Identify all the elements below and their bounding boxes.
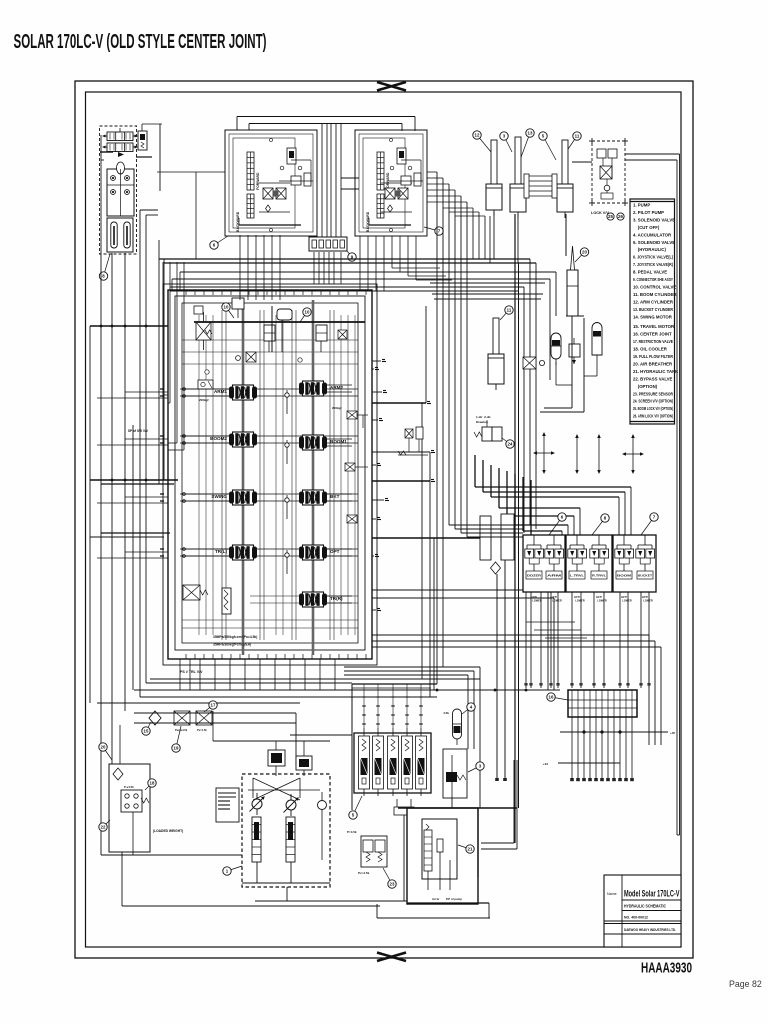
outer border frame bbox=[75, 81, 693, 958]
svg-text:Model Solar 170LC-V: Model Solar 170LC-V bbox=[624, 889, 680, 899]
balloon 15 bbox=[142, 722, 151, 735]
remote manifold box A bbox=[523, 535, 565, 592]
pilot unit R.TRVL bbox=[590, 535, 609, 579]
pilot unit BOOM bbox=[615, 535, 634, 579]
svg-text:16: 16 bbox=[549, 695, 554, 700]
svg-text:13. BUCKET CYLINDER: 13. BUCKET CYLINDER bbox=[633, 307, 674, 312]
bucket cylinder 13 bbox=[510, 137, 526, 218]
svg-text:22. BYPASS VALVE: 22. BYPASS VALVE bbox=[633, 376, 673, 381]
svg-text:P=4.5k: P=4.5k bbox=[347, 830, 357, 834]
svg-text:LOWER: LOWER bbox=[575, 600, 584, 603]
MCV load check valves bbox=[285, 390, 289, 574]
svg-text:12: 12 bbox=[475, 133, 480, 138]
svg-text:10: 10 bbox=[224, 305, 229, 310]
main pump 1b bbox=[284, 794, 299, 816]
spool BOOM1 bbox=[299, 435, 352, 450]
svg-text:15. TRAVEL MOTOR: 15. TRAVEL MOTOR bbox=[633, 324, 675, 329]
wire solenoid bottom bbox=[394, 799, 414, 901]
wire MCV row feeds bbox=[97, 392, 168, 558]
balloon 16 bbox=[547, 693, 568, 701]
lock valve box 25/26 bbox=[589, 138, 628, 215]
wire left heavy horizontals bbox=[90, 259, 178, 537]
joystick valve 6 (left) bbox=[225, 130, 317, 236]
svg-text:4. ACCUMULATOR: 4. ACCUMULATOR bbox=[633, 232, 672, 237]
svg-text:+42: +42 bbox=[543, 762, 548, 766]
air breather 20 bbox=[567, 246, 578, 316]
pump internals bbox=[252, 817, 295, 862]
balloon 26 bbox=[617, 213, 624, 220]
spool BOOM2 bbox=[180, 432, 257, 447]
pilot pump 2 bbox=[318, 792, 327, 860]
wire manifold drops bbox=[526, 592, 649, 688]
wire MCV bottom drops bbox=[180, 659, 335, 690]
pump cross linkage bbox=[248, 766, 320, 800]
svg-text:15: 15 bbox=[144, 729, 149, 734]
svg-text:DAEWOO HEAVY INDUSTRIES LTD.: DAEWOO HEAVY INDUSTRIES LTD. bbox=[624, 927, 676, 932]
svg-text:11: 11 bbox=[507, 308, 512, 313]
svg-text:FORWARD: FORWARD bbox=[256, 172, 260, 190]
svg-text:(HYDRAULIC): (HYDRAULIC) bbox=[633, 247, 667, 252]
page title bbox=[14, 31, 267, 53]
svg-text:BOOM2: BOOM2 bbox=[210, 436, 227, 441]
svg-text:SWING: SWING bbox=[211, 494, 227, 499]
svg-text:25. BOOM LOCK V/V (OPTION): 25. BOOM LOCK V/V (OPTION) bbox=[633, 406, 673, 411]
pedal valve body bbox=[107, 162, 134, 216]
svg-text:35MPa/360kgf=cm²(2EA): 35MPa/360kgf=cm²(2EA) bbox=[213, 643, 251, 647]
solenoid bank box bbox=[352, 684, 437, 810]
flow marker v2 bbox=[575, 434, 579, 474]
svg-text:LOWER: LOWER bbox=[552, 600, 561, 603]
wire right vertical bundle bbox=[427, 172, 467, 684]
boom cylinder 11 bbox=[557, 140, 573, 218]
svg-text:ARM1: ARM1 bbox=[214, 389, 227, 394]
wire bottom bus bbox=[97, 667, 560, 808]
pedal valve 8 dashed box bbox=[100, 126, 137, 254]
balloon 11 bbox=[500, 306, 513, 320]
solenoid valve 5-2 bbox=[373, 728, 384, 796]
wire MCV right exits bbox=[372, 306, 661, 745]
wire top bus bbox=[237, 117, 415, 132]
full flow filter 19 bbox=[196, 711, 212, 732]
accumulator a bbox=[551, 333, 561, 365]
svg-text:BOOM1: BOOM1 bbox=[330, 439, 347, 444]
balloon 18 bbox=[145, 779, 156, 790]
balloon 17 bbox=[204, 701, 217, 712]
wire accum down bbox=[540, 316, 584, 412]
svg-text:9. CONNECTOR SHE ASSY: 9. CONNECTOR SHE ASSY bbox=[633, 277, 673, 282]
control valve 10 outline bbox=[163, 284, 377, 665]
svg-text:OPT: OPT bbox=[330, 549, 340, 554]
svg-text:ARM2: ARM2 bbox=[330, 385, 343, 390]
pilot unit DOZER bbox=[525, 535, 544, 579]
svg-text:20. AIR BREATHER: 20. AIR BREATHER bbox=[633, 361, 673, 366]
svg-text:11: 11 bbox=[575, 134, 580, 139]
balloon 6m bbox=[549, 513, 566, 535]
MCV bottom text bbox=[180, 635, 257, 674]
svg-text:LOWER: LOWER bbox=[532, 600, 541, 603]
screen valve 24 bbox=[474, 415, 502, 441]
svg-text:LOWER: LOWER bbox=[622, 600, 631, 603]
wire left verticals bbox=[90, 135, 158, 855]
pilot unit ARM bbox=[545, 535, 564, 579]
oil cooler 18 bbox=[174, 711, 190, 732]
svg-text:6. JOYSTICK VALVE(L): 6. JOYSTICK VALVE(L) bbox=[633, 255, 673, 260]
balloon 6 bbox=[210, 236, 228, 249]
svg-text:24: 24 bbox=[508, 442, 513, 447]
balloon 3 bbox=[500, 132, 512, 152]
wire manifold feeders bbox=[449, 525, 523, 537]
wire cooler bar bbox=[134, 713, 296, 766]
pedal valve lower section bbox=[107, 218, 133, 252]
pilot unit L.TRVL bbox=[568, 535, 587, 579]
wire manifold drop labels bbox=[524, 683, 650, 686]
solenoid valve 5-4 bbox=[402, 728, 413, 796]
svg-text:10. CONTROL VALVE: 10. CONTROL VALVE bbox=[633, 284, 676, 289]
svg-text:LOWER: LOWER bbox=[597, 600, 606, 603]
balloon 12 bbox=[473, 131, 491, 152]
svg-text:20: 20 bbox=[582, 250, 587, 255]
svg-text:BUCKET: BUCKET bbox=[638, 574, 652, 578]
svg-text:+45: +45 bbox=[670, 731, 675, 735]
solenoid valve 5-5 bbox=[416, 728, 427, 796]
balloon 8m bbox=[592, 514, 609, 535]
svg-text:SOLAR 170LC-V (OLD STYLE CENTE: SOLAR 170LC-V (OLD STYLE CENTER JOINT) bbox=[14, 31, 267, 53]
pump name plate bbox=[216, 788, 239, 822]
svg-text:BKT: BKT bbox=[330, 494, 340, 499]
svg-text:P.P of pump: P.P of pump bbox=[446, 897, 462, 901]
MCV solenoid a bbox=[264, 325, 275, 352]
svg-text:18. OIL COOLER: 18. OIL COOLER bbox=[633, 347, 668, 352]
control valve row wires bbox=[160, 340, 358, 628]
svg-text:Name: Name bbox=[607, 892, 617, 896]
MCV inner manifold line bbox=[194, 306, 365, 352]
svg-text:23: 23 bbox=[390, 882, 395, 887]
page number bbox=[729, 979, 762, 989]
fold mark bottom bbox=[377, 953, 406, 962]
solenoid valve 5-1 bbox=[359, 728, 370, 796]
flow marker cross 1 bbox=[533, 432, 555, 474]
svg-text:26. ARM LOCK V/V (OPTION): 26. ARM LOCK V/V (OPTION) bbox=[633, 414, 673, 419]
wire relief to tank bbox=[436, 689, 528, 808]
accumulator b (bullet) bbox=[584, 323, 602, 377]
spool TR(R) bbox=[299, 592, 352, 607]
svg-text:21: 21 bbox=[468, 847, 473, 852]
wire left jogs to MCV bbox=[157, 172, 359, 450]
svg-text:23. PRESSURE SENSOR: 23. PRESSURE SENSOR bbox=[633, 391, 674, 396]
remote manifold sublabels bbox=[531, 596, 653, 603]
svg-text:P-v4.5k: P-v4.5k bbox=[124, 785, 134, 789]
pedal valve 8 spools bbox=[102, 128, 138, 152]
relief block 3 bbox=[443, 749, 467, 798]
svg-text:DOZER: DOZER bbox=[527, 574, 542, 578]
balloon 1 bbox=[223, 866, 242, 875]
balloon 9 bbox=[347, 251, 356, 261]
balloon 7 bbox=[424, 227, 443, 235]
flow marker v3 bbox=[597, 434, 601, 474]
wire bus second pair bbox=[170, 287, 524, 533]
wire cylinders down bbox=[494, 154, 680, 835]
balloon 10b bbox=[300, 308, 311, 322]
svg-text:24. SCREEN V/V (OPTION): 24. SCREEN V/V (OPTION) bbox=[633, 399, 673, 404]
svg-text:19. FULL FLOW FILTER: 19. FULL FLOW FILTER bbox=[633, 354, 674, 359]
svg-text:Air br: Air br bbox=[432, 897, 440, 901]
svg-text:7. JOYSTICK VALVE(R): 7. JOYSTICK VALVE(R) bbox=[633, 262, 673, 267]
svg-text:17: 17 bbox=[211, 703, 216, 708]
svg-text:ARM: ARM bbox=[547, 574, 562, 578]
svg-text:Pv=4.5k: Pv=4.5k bbox=[358, 871, 370, 875]
svg-text:16. CENTER JOINT: 16. CENTER JOINT bbox=[633, 332, 672, 337]
spool SWING bbox=[180, 490, 257, 505]
inner border frame bbox=[86, 92, 682, 947]
balloon 4 bbox=[462, 703, 475, 714]
svg-text:LOCK V/V: LOCK V/V bbox=[591, 211, 609, 215]
svg-text:LOWER: LOWER bbox=[643, 600, 652, 603]
balloon 5b bbox=[539, 132, 556, 160]
wire dotted junction line bbox=[543, 731, 676, 767]
MCV right component cluster bbox=[398, 427, 428, 455]
svg-text:Pump4.5k: Pump4.5k bbox=[175, 728, 188, 732]
wire center joint drops bbox=[570, 717, 634, 781]
svg-text:35MPa/350kgf=cm²(Po=4.5k): 35MPa/350kgf=cm²(Po=4.5k) bbox=[213, 635, 257, 639]
svg-text:HYDRAULIC SCHEMATIC: HYDRAULIC SCHEMATIC bbox=[624, 904, 667, 909]
check valve bypass bbox=[149, 711, 161, 725]
svg-text:11. BOOM CYLINDER: 11. BOOM CYLINDER bbox=[633, 292, 677, 297]
svg-text:200kgf: 200kgf bbox=[199, 398, 209, 402]
boom cylinder mid (11) bbox=[488, 318, 504, 390]
spool OPT bbox=[299, 545, 352, 560]
wire right stair bbox=[481, 760, 680, 849]
connector 9 bbox=[309, 237, 347, 251]
svg-text:Page 82: Page 82 bbox=[729, 979, 762, 989]
relief pair block bbox=[347, 830, 387, 875]
spool ARM1 bbox=[180, 385, 257, 400]
svg-text:Drawing: Drawing bbox=[476, 420, 488, 424]
svg-text:2. PILOT PUMP: 2. PILOT PUMP bbox=[633, 210, 664, 215]
svg-text:TR(L): TR(L) bbox=[215, 549, 227, 554]
svg-text:25: 25 bbox=[608, 214, 613, 219]
document number HAAA3930 bbox=[641, 960, 692, 977]
balloon 7m bbox=[641, 513, 658, 535]
cylinder link lines bbox=[524, 174, 557, 198]
svg-text:17. RESTRICTION VALVE: 17. RESTRICTION VALVE bbox=[633, 339, 673, 344]
svg-text:Pv=4.5k: Pv=4.5k bbox=[197, 728, 207, 732]
svg-text:(CUT OFF): (CUT OFF) bbox=[633, 225, 660, 230]
svg-text:14. SWING MOTOR: 14. SWING MOTOR bbox=[633, 314, 673, 319]
balloon 3b bbox=[468, 762, 484, 772]
wire cylinder extra bundle bbox=[443, 208, 490, 263]
wire upper right bundle bbox=[172, 272, 556, 380]
remote manifold box B bbox=[566, 535, 612, 592]
pump regulator a bbox=[268, 741, 285, 766]
wire joystick drop bundle bbox=[240, 235, 452, 300]
restriction valve 17 mid bbox=[523, 357, 545, 369]
control valve port ticks bbox=[186, 290, 366, 659]
pedal valve right branch bbox=[100, 124, 162, 191]
svg-text:22: 22 bbox=[101, 825, 106, 830]
svg-text:L.TRVL: L.TRVL bbox=[570, 574, 584, 578]
svg-text:3. SOLENOID VALVE: 3. SOLENOID VALVE bbox=[633, 217, 675, 222]
MCV ARM2 aux valves bbox=[332, 406, 368, 523]
svg-text:200kgf: 200kgf bbox=[332, 406, 342, 410]
parts list box bbox=[630, 199, 679, 424]
svg-text:R.TRVL: R.TRVL bbox=[592, 574, 606, 578]
svg-text:21. HYDRAULIC TANK: 21. HYDRAULIC TANK bbox=[633, 369, 679, 374]
wire center bundle between joysticks bbox=[322, 124, 341, 239]
svg-text:26: 26 bbox=[618, 214, 623, 219]
MCV top small box bbox=[232, 298, 244, 318]
pump regulator b bbox=[296, 741, 312, 770]
tank block 21 bbox=[407, 808, 478, 904]
balloon 13 bbox=[520, 129, 534, 160]
balloon 23 bbox=[383, 868, 396, 888]
title block bbox=[604, 875, 681, 947]
wire pump bottom bbox=[213, 711, 460, 901]
fold mark top bbox=[377, 82, 406, 91]
svg-text:BOOM: BOOM bbox=[617, 574, 632, 578]
svg-text:TR(R): TR(R) bbox=[330, 596, 343, 601]
MCV top extra components bbox=[194, 306, 347, 374]
control valve inner rails bbox=[199, 310, 355, 640]
pilot unit BUCKET bbox=[636, 535, 655, 579]
wire bus upper pair bbox=[159, 240, 536, 529]
svg-text:NO. 400-00012: NO. 400-00012 bbox=[624, 915, 649, 920]
MCV ARM1 aux valve bbox=[198, 380, 213, 402]
spool BKT bbox=[299, 490, 352, 505]
solenoid pilot ticks bbox=[352, 684, 431, 728]
MCV bottom relief bbox=[183, 585, 208, 600]
arm cylinder 12 bbox=[486, 140, 502, 216]
svg-text:20: 20 bbox=[101, 745, 106, 750]
svg-text:18: 18 bbox=[150, 781, 155, 786]
svg-text:8. PEDAL VALVE: 8. PEDAL VALVE bbox=[633, 270, 667, 275]
svg-text:12. ARM CYLINDER: 12. ARM CYLINDER bbox=[633, 299, 674, 304]
balloon 11b bbox=[566, 132, 581, 152]
accumulator 4 bbox=[443, 709, 461, 745]
balloon 22 bbox=[99, 820, 110, 831]
svg-text:(OPTION): (OPTION) bbox=[633, 384, 658, 389]
wire bottom left bbox=[101, 725, 380, 906]
svg-text:13: 13 bbox=[528, 131, 533, 136]
svg-text:5. SOLENOID VALVE: 5. SOLENOID VALVE bbox=[633, 240, 675, 245]
balloon 20b bbox=[575, 248, 589, 262]
balloon 21 bbox=[458, 845, 474, 853]
balloon 10a bbox=[222, 303, 234, 318]
spool ARM2 bbox=[299, 381, 352, 396]
balloon 19 bbox=[172, 726, 181, 752]
spool TR(L) bbox=[180, 545, 257, 560]
svg-text:(LOADED WEIGHT): (LOADED WEIGHT) bbox=[153, 829, 183, 833]
valve between accumulators bbox=[569, 338, 580, 364]
balloon 25 bbox=[607, 213, 614, 220]
balloon 5 bbox=[349, 796, 362, 819]
wire right staircase bbox=[475, 455, 631, 537]
svg-text:HAAA3930: HAAA3930 bbox=[641, 960, 692, 977]
remote manifold left parts bbox=[480, 514, 514, 781]
balloon 24 bbox=[502, 438, 514, 448]
main pump 1a bbox=[250, 793, 265, 815]
center joint 16 bbox=[568, 690, 637, 717]
control valve gray spool buses bbox=[243, 300, 313, 655]
svg-text:1. PUMP: 1. PUMP bbox=[633, 203, 650, 208]
flow marker cross 4 bbox=[622, 434, 644, 474]
MCV solenoid b bbox=[316, 325, 327, 352]
svg-text:1-dir 2-dir: 1-dir 2-dir bbox=[476, 415, 492, 419]
swivel block label bbox=[153, 829, 183, 833]
balloon 20 bbox=[99, 743, 112, 760]
svg-text:10: 10 bbox=[305, 310, 310, 315]
wire long verticals right of MCV bbox=[515, 214, 519, 843]
pump block dashed box bbox=[242, 774, 330, 887]
wire tank heavy bbox=[377, 808, 517, 918]
solenoid valve 5-3 bbox=[388, 728, 399, 796]
svg-text:4.5k: 4.5k bbox=[443, 711, 449, 715]
MCV bottom spring element bbox=[222, 588, 231, 614]
swivel block left bbox=[109, 764, 150, 852]
remote manifold box C bbox=[613, 535, 656, 592]
balloon 8 bbox=[99, 254, 110, 280]
svg-text:19: 19 bbox=[174, 746, 179, 751]
svg-text:SP of SW V/V: SP of SW V/V bbox=[128, 429, 149, 433]
joystick valve 7 (right) bbox=[355, 130, 427, 236]
MCV relief valve top bbox=[196, 312, 211, 350]
